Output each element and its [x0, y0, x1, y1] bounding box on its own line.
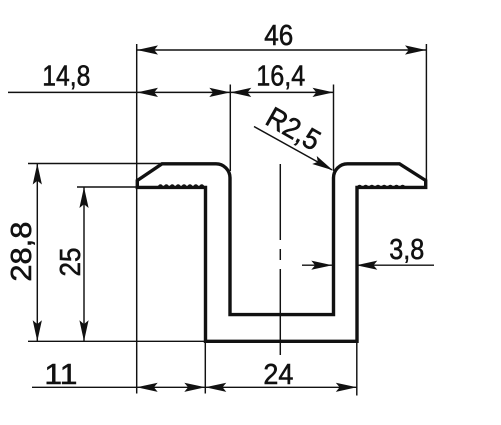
R2,5 leader	[254, 102, 335, 175]
svg-text:R2,5: R2,5	[260, 102, 325, 158]
dim 14,8 / 16,4 line	[8, 60, 334, 97]
svg-text:16,4: 16,4	[256, 60, 305, 92]
svg-text:14,8: 14,8	[42, 61, 90, 93]
dim 25	[55, 187, 89, 341]
profile outline	[137, 164, 425, 341]
svg-text:46: 46	[264, 20, 293, 52]
dim 28,8	[6, 164, 42, 342]
svg-text:24: 24	[263, 359, 293, 391]
extension lines	[28, 44, 426, 396]
svg-text:25: 25	[55, 248, 87, 277]
svg-text:28,8: 28,8	[6, 222, 38, 282]
dim 11 / 24 line	[32, 359, 357, 392]
dim 46	[137, 20, 426, 55]
svg-text:3,8: 3,8	[389, 234, 424, 266]
serration right wing	[357, 185, 406, 188]
svg-text:11: 11	[44, 359, 77, 391]
serration left wing	[158, 184, 205, 187]
centerline	[279, 164, 281, 355]
dim 3,8	[302, 234, 434, 270]
